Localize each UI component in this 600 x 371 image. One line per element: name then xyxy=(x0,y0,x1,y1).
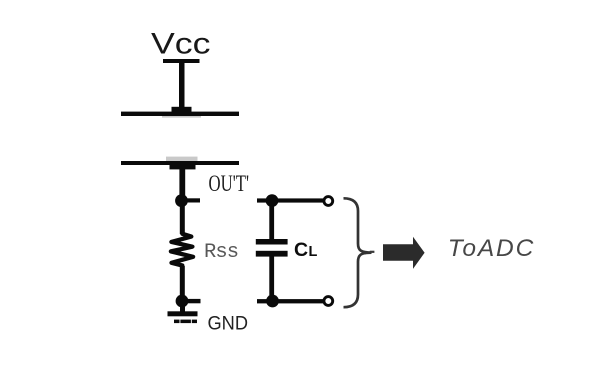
transistor M1 bottom plate light pad xyxy=(166,157,198,162)
node OUT junction dot xyxy=(175,194,188,207)
terminal bottom open circle xyxy=(324,297,333,306)
node GND junction dot xyxy=(176,295,189,308)
node capacitor top junction dot xyxy=(266,194,279,207)
svg-text:L: L xyxy=(309,244,318,260)
svg-text:Vcc: Vcc xyxy=(151,28,211,61)
pad under transistor bottom plate xyxy=(170,165,196,170)
transistor M1 bottom plate line xyxy=(121,161,239,165)
wire top rail to terminal xyxy=(257,198,324,202)
wire stub right of OUT node xyxy=(181,198,200,202)
capacitor CL bottom plate xyxy=(256,251,288,257)
ground symbol dashes xyxy=(174,320,180,324)
arrow to ADC xyxy=(383,237,425,269)
wire stub right of GND node xyxy=(182,299,201,303)
wire cap top node to plate xyxy=(269,200,274,240)
wire bottom rail to terminal xyxy=(257,299,324,303)
wire OUT node to resistor xyxy=(180,200,185,234)
pad on transistor top plate xyxy=(172,107,192,113)
svg-text:GND: GND xyxy=(208,313,249,335)
wire GND node to ground bar xyxy=(180,301,185,313)
brace grouping terminals xyxy=(344,198,372,307)
wire resistor to GND node xyxy=(180,266,185,303)
wire plate to cap bottom node xyxy=(269,256,274,301)
wire Vcc bar to drain line xyxy=(179,61,185,108)
brace cusp tick xyxy=(370,251,375,253)
svg-text:OU'T': OU'T' xyxy=(209,171,250,197)
svg-text:Rss: Rss xyxy=(204,241,239,264)
terminal top open circle xyxy=(324,197,333,206)
capacitor CL top plate xyxy=(256,239,288,245)
ground symbol bar xyxy=(168,311,198,316)
resistor R_SS zigzag xyxy=(171,229,193,268)
svg-text:C: C xyxy=(294,239,308,261)
node capacitor bottom junction dot xyxy=(266,295,279,308)
power supply Vcc symbol bar xyxy=(163,59,200,63)
transistor M1 top plate line xyxy=(121,112,239,116)
wire bottom plate to OUT node xyxy=(179,168,185,202)
